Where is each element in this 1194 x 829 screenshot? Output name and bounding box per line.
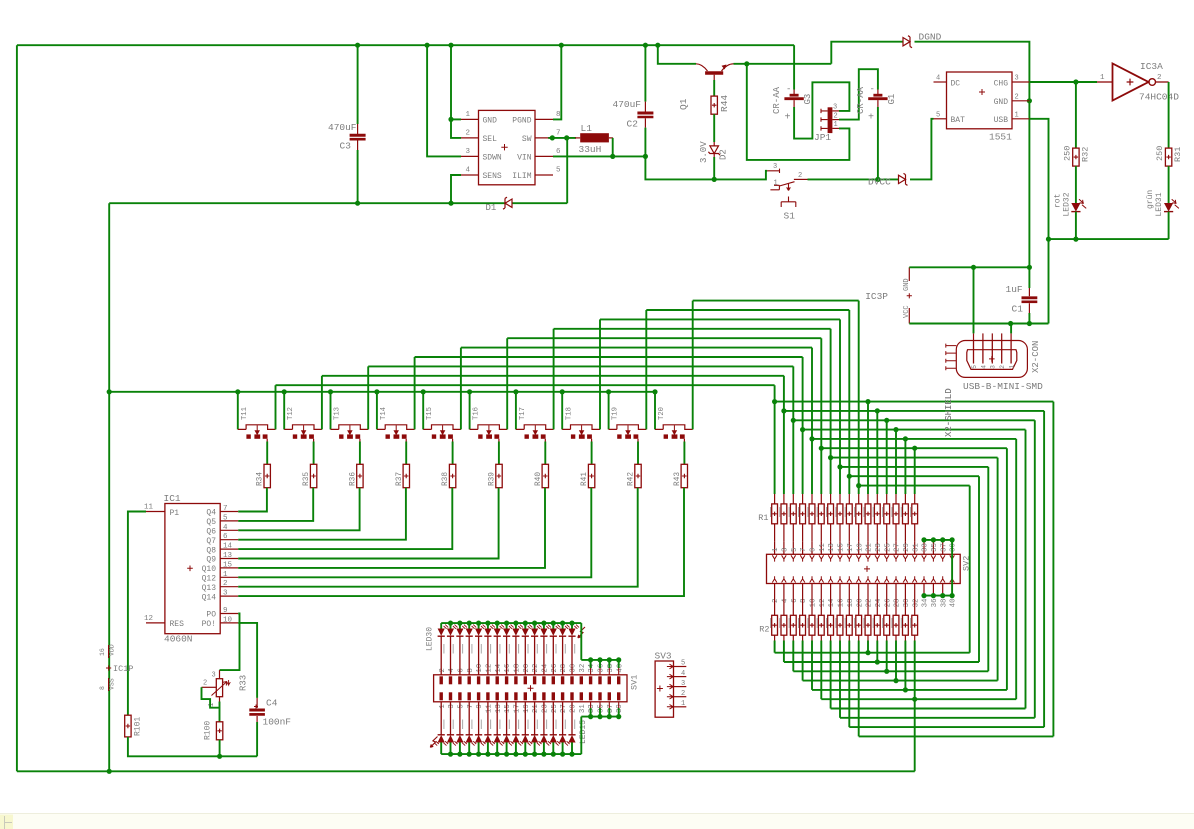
svg-text:5: 5 [971, 365, 978, 369]
resistor array R1 element 15 [904, 494, 906, 504]
svg-text:2: 2 [1015, 93, 1019, 101]
junction SV2 pin 40 rail [950, 593, 955, 598]
wire fabric horizontal h9 [849, 475, 979, 477]
svg-text:R36: R36 [349, 472, 357, 486]
LED array top element 15 (pin 30) [571, 623, 573, 628]
svg-text:24: 24 [875, 598, 883, 607]
svg-text:13: 13 [828, 543, 836, 552]
resistor R42 [635, 464, 641, 487]
junction LED rail col 10 [523, 621, 528, 626]
SV2 top pin 37 pad [940, 555, 945, 561]
R2 element 10 name dash [854, 618, 855, 628]
junction T13 source / bus [328, 389, 333, 394]
svg-text:12: 12 [819, 599, 827, 608]
resistor array R1 element 4 [802, 494, 804, 504]
svg-text:3: 3 [681, 680, 685, 688]
svg-text:34: 34 [588, 663, 596, 672]
svg-text:31: 31 [579, 704, 587, 713]
junction h5 / column v15 [903, 436, 908, 441]
SV1 bottom pin 31 pad [580, 692, 583, 700]
R1 element 6 name dash [817, 507, 818, 517]
junction USB wire / LED rail [1046, 237, 1051, 242]
R1 element 5 name dash [807, 507, 808, 517]
SV1 top pin 12 pad [486, 676, 489, 684]
junction pin7 a [550, 135, 555, 140]
svg-text:2: 2 [223, 580, 228, 588]
junction pin8 / top rail [559, 43, 564, 48]
wire T13 gate down [359, 442, 361, 465]
resistor array R2 element 14 [895, 597, 897, 616]
R2 element 14 name dash [891, 618, 892, 628]
junction R2 col11 / wrap bottom [865, 650, 870, 655]
SV1 bottom pin 3 pad [449, 692, 452, 700]
switch S1 pin1 pad [770, 185, 779, 190]
junction C3 bottom [355, 201, 360, 206]
svg-text:T20: T20 [658, 407, 666, 420]
svg-text:X2-SHIELD: X2-SHIELD [944, 388, 954, 437]
wire SV1 pin 38 stub [608, 660, 610, 668]
LED bottom element 3 name dash [462, 720, 463, 730]
junction h4 / column v4 [800, 427, 805, 432]
wire IC1 Q13 to R42 [238, 488, 638, 587]
SV1 bottom pin 37 pad [608, 692, 611, 700]
svg-text:16: 16 [838, 598, 846, 607]
svg-text:R42: R42 [628, 472, 636, 486]
capacitor C2 [644, 45, 646, 101]
IC1P origin cross [106, 665, 111, 670]
junction h1 / column v1 [772, 399, 777, 404]
LED array top element 1 (pin 2) [440, 623, 442, 628]
LED array bottom element 3 (pin 5) [459, 702, 461, 735]
resistor array R2 element 11 [867, 597, 869, 616]
resistor array R2 element 13 [886, 597, 888, 616]
wire LED rail to SV1 pins 34-40 rail [580, 623, 582, 660]
wire wrap bottom 6 [812, 689, 1007, 691]
svg-text:25: 25 [884, 543, 892, 552]
junction source bus / left rail [107, 389, 112, 394]
wire IC1 Q10 to R40 [238, 488, 545, 568]
power symbol IC1P VDD stub [108, 645, 110, 658]
resistor array R2 element 4 [802, 597, 804, 616]
junction h2 / column v12 [875, 408, 880, 413]
IC1 pin 4 stub Q6 [220, 529, 238, 531]
SV1 bottom pin 9 pad [477, 692, 480, 700]
X2 origin cross [989, 356, 995, 362]
svg-text:36: 36 [931, 598, 939, 607]
wire R101 to local ground [128, 737, 257, 756]
R2 element 7 name dash [826, 618, 827, 628]
resistor array R2 element 9 [848, 597, 850, 616]
junction LED rail col 11 [532, 621, 537, 626]
wire level net T18 to column [600, 318, 840, 320]
SV1 bottom pin 35 pad [598, 692, 601, 700]
svg-text:1: 1 [772, 547, 780, 552]
SV1 origin cross [528, 685, 534, 691]
wire R2 element 5 down [811, 635, 813, 640]
svg-text:SENS: SENS [483, 172, 502, 181]
junction LED rail col 15 [569, 621, 574, 626]
SV1 top pin 18 pad [514, 676, 517, 684]
svg-text:23: 23 [542, 704, 550, 713]
svg-text:IC3P: IC3P [865, 291, 888, 302]
wire 1551 USB pin to LED rail [1029, 119, 1048, 239]
connector SV1 box [434, 675, 627, 702]
SV2 top pin 5 pad [791, 555, 796, 561]
IC1 pin 5 stub Q5 [220, 520, 238, 522]
capacitor C4 100nF [256, 698, 258, 708]
SV2 bottom pin 38 pad [940, 576, 945, 582]
wire SW node vertical [566, 138, 568, 203]
wire IC1 Q14 to R43 [238, 488, 684, 596]
IC1 pin 1 stub Q12 [220, 576, 238, 578]
junction h6 / column v16 [912, 446, 917, 451]
junction bottom LED rail col 10 [523, 752, 528, 757]
svg-text:4060N: 4060N [164, 634, 193, 645]
transistor T18 [561, 392, 563, 430]
LED array top element 12 (pin 24) [543, 623, 545, 628]
junction bottom LED rail col 13 [551, 752, 556, 757]
svg-text:5: 5 [936, 111, 940, 119]
LED bottom element 15 name dash [574, 720, 575, 730]
resistor array R1 element 11 [867, 494, 869, 504]
SV2 top pin 7 pad [800, 555, 805, 561]
R33 wiper lead [202, 686, 217, 688]
SV1 bottom pin 1 pad [440, 692, 443, 700]
wire SV1 pins 33-39 rail [581, 716, 618, 718]
wire wrap bottom 2 [849, 726, 1044, 728]
resistor array R1 element 9 [848, 494, 850, 504]
transistor T14 [376, 392, 378, 430]
SV2 bottom pin 12 pad [819, 576, 824, 582]
wire DGND to 1551 GND and down [915, 42, 1030, 268]
R1 element 11 name dash [863, 507, 864, 517]
SV2 bottom pin 8 pad [800, 576, 805, 582]
LED array top element 13 (pin 26) [552, 623, 554, 628]
junction C2 top [643, 43, 648, 48]
wire wrap right vertical 1 [1052, 402, 1054, 737]
junction LED rail col 8 [504, 621, 509, 626]
resistor R100 [216, 722, 222, 740]
svg-text:33: 33 [922, 543, 930, 552]
svg-text:1: 1 [465, 111, 470, 119]
junction SV2 pin 34 rail [921, 593, 926, 598]
svg-text:74HC04D: 74HC04D [1139, 92, 1179, 103]
junction T12 source / bus [282, 389, 287, 394]
resistor R37 [403, 464, 409, 487]
R1 element 13 name dash [882, 507, 883, 517]
junction 1551 GND pin [1027, 98, 1032, 103]
wire IC1 pin11 to R101 [128, 512, 146, 716]
wire wrap right vertical 7 [997, 458, 999, 681]
svg-text:27: 27 [894, 543, 902, 552]
wire fabric horizontal h4 [803, 429, 1026, 431]
wire VCC source bus [109, 391, 655, 393]
wire level net T17 to column [554, 328, 831, 330]
connector SV2 box [767, 554, 961, 583]
resistor array R2 element 1 [774, 597, 776, 616]
svg-text:VCC: VCC [903, 305, 911, 318]
LED LED31 [1164, 203, 1173, 212]
svg-text:rot: rot [1054, 194, 1063, 208]
svg-text:R33: R33 [239, 675, 249, 691]
wire SV1 pin 33 stub [590, 708, 592, 717]
SV2 top pin 31 pad [912, 555, 917, 561]
svg-text:100nF: 100nF [263, 717, 292, 728]
SV2 top pin 1 pad [772, 555, 777, 561]
wire column v1 down to R1 [774, 385, 776, 494]
LED top element 15 name dash [574, 644, 575, 654]
wire T12 drain to level [321, 376, 323, 430]
svg-text:T16: T16 [473, 407, 481, 420]
wire wrap right vertical 4 [1025, 430, 1027, 709]
wire SV1 pins 34-40 rail [581, 659, 618, 661]
svg-text:C1: C1 [1012, 304, 1024, 315]
svg-text:1: 1 [1100, 74, 1105, 82]
svg-text:12: 12 [144, 615, 153, 623]
svg-text:2: 2 [798, 172, 802, 180]
junction pin3 feed / top rail [425, 43, 430, 48]
svg-text:3.0V: 3.0V [699, 141, 709, 163]
LED array top element 3 (pin 6) [459, 623, 461, 628]
svg-text:T15: T15 [426, 407, 434, 420]
junction LED rail col 13 [551, 621, 556, 626]
sheet lower margin line [0, 814, 1194, 829]
SV2 bottom pin 20 pad [856, 576, 861, 582]
resistor R39 [496, 464, 502, 487]
svg-text:26: 26 [884, 598, 892, 607]
svg-text:20: 20 [523, 664, 531, 673]
SV1 bottom pin 33 pad [589, 692, 592, 700]
LED array bottom element 13 (pin 25) [552, 702, 554, 735]
svg-text:3: 3 [990, 365, 997, 369]
svg-text:37: 37 [607, 704, 615, 713]
SV1 top pin 2 pad [440, 676, 443, 684]
svg-text:R39: R39 [488, 472, 496, 486]
wire T14 gate down [405, 442, 407, 465]
junction LED rail col 6 [485, 621, 490, 626]
resistor array R2 element 7 [830, 597, 832, 616]
LED top element 11 name dash [537, 644, 538, 654]
R2 element 4 name dash [798, 618, 799, 628]
svg-text:R43: R43 [674, 472, 682, 486]
wire R2 element 3 down [792, 635, 794, 640]
LED array top element 6 (pin 12) [487, 623, 489, 628]
svg-text:4: 4 [465, 167, 470, 175]
LED bottom element 8 name dash [509, 720, 510, 730]
SV2 top pin 15 pad [838, 555, 843, 561]
svg-text:2: 2 [1157, 74, 1162, 82]
resistor array R2 element 15 [904, 597, 906, 616]
svg-text:SV1: SV1 [630, 675, 640, 690]
wire T17 gate down [544, 442, 546, 465]
wire wrap bottom 8 [793, 670, 988, 672]
svg-text:SDWN: SDWN [483, 153, 502, 162]
junction LED rail col 14 [560, 621, 565, 626]
wire G1 bottom to DVCC rail [877, 107, 879, 179]
transistor T17 [515, 392, 517, 430]
wire R33 wiper to pin1 [202, 687, 220, 707]
1551 pin5 stub [934, 118, 947, 120]
junction T18 source / bus [560, 389, 565, 394]
SV2 bottom pin 14 pad [828, 576, 833, 582]
SV2 bottom pin 36 pad [931, 576, 936, 582]
svg-text:33: 33 [588, 704, 596, 713]
svg-text:T13: T13 [334, 407, 342, 420]
svg-text:8: 8 [800, 599, 808, 603]
wire inverter output [1168, 82, 1170, 148]
wire level net T13 to column [368, 365, 793, 367]
inverter IC3A 74HC04D [1113, 64, 1149, 101]
svg-text:39: 39 [950, 543, 958, 552]
svg-text:P1: P1 [170, 509, 180, 518]
svg-text:2: 2 [999, 365, 1006, 369]
wire T17 drain to level [553, 329, 555, 430]
power symbol IC3P GND stub [908, 267, 910, 281]
wire T15 drain to level [460, 348, 462, 430]
IC1 origin cross [187, 566, 193, 572]
SV1 top pin 34 pad [589, 676, 592, 684]
SV1 top pin 36 pad [598, 676, 601, 684]
SV2 bottom pin 22 pad [866, 576, 871, 582]
svg-text:28: 28 [894, 599, 902, 608]
LED top element 12 name dash [546, 644, 547, 654]
LED array top element 14 (pin 28) [562, 623, 564, 628]
IC1 pin 3 stub Q14 [220, 595, 238, 597]
svg-text:35: 35 [598, 704, 606, 713]
svg-text:2: 2 [772, 599, 780, 603]
LED top element 10 name dash [528, 644, 529, 654]
LED top element 6 name dash [490, 644, 491, 654]
junction SV1 pin 39 ext rail [616, 714, 621, 719]
wire level net T19 to column [646, 309, 849, 311]
wire IC1 Q6 to R36 [238, 488, 359, 531]
wire second left rail [108, 203, 110, 771]
LED top element 2 name dash [453, 644, 454, 654]
jumper JP1 body [828, 107, 833, 133]
resistor array R2 element 10 [858, 597, 860, 616]
svg-text:5: 5 [457, 704, 465, 708]
svg-text:L1: L1 [581, 123, 593, 134]
wire T12 gate down [313, 442, 315, 465]
resistor R40 [542, 464, 548, 487]
R33 pin1 lead [219, 697, 221, 702]
wire D2 to battery rail [713, 157, 715, 179]
junction SV2 pin 37 rail [940, 537, 945, 542]
IC2 origin cross [501, 144, 507, 150]
wire SV1 pin 34 stub [590, 660, 592, 668]
wire T13 drain to level [367, 366, 369, 429]
SV2 top pin 25 pad [884, 555, 889, 561]
svg-text:grün: grün [1146, 190, 1155, 209]
svg-text:CHG: CHG [994, 79, 1009, 88]
wire LED bottom rail [1049, 238, 1169, 240]
R1 element 14 name dash [891, 507, 892, 517]
inverter output stub [1156, 81, 1169, 83]
SV1 top pin 32 pad [580, 676, 583, 684]
wire JP1 pin2 to G1 [839, 69, 878, 119]
svg-text:GND: GND [994, 98, 1009, 107]
svg-text:R100: R100 [204, 721, 213, 740]
SV3 pin 5 pad [667, 664, 673, 669]
SV2 bottom pin 6 pad [791, 576, 796, 582]
wire R2 element 12 down [876, 635, 878, 640]
SV1 top pin 10 pad [477, 676, 480, 684]
power symbol IC3P VCC stub [908, 308, 910, 324]
svg-text:PO!: PO! [202, 620, 216, 629]
svg-text:VDD: VDD [109, 644, 116, 656]
junction bottom LED rail col 11 [532, 752, 537, 757]
svg-text:JP1: JP1 [814, 132, 831, 143]
svg-text:34: 34 [922, 598, 930, 607]
svg-text:13: 13 [495, 704, 503, 713]
svg-text:9: 9 [810, 548, 818, 552]
svg-text:1: 1 [223, 571, 228, 579]
resistor array R1 element 3 [792, 494, 794, 504]
wire R32 branch down [1075, 82, 1077, 148]
junction R100 / ground wire [217, 754, 222, 759]
svg-text:250: 250 [1155, 146, 1165, 161]
wire level net T12 to column [322, 375, 784, 377]
svg-text:28: 28 [560, 664, 568, 673]
junction h5 / column v5 [809, 436, 814, 441]
R1 element 15 name dash [901, 507, 902, 517]
wire wrap right vertical 2 [1043, 411, 1045, 727]
svg-text:29: 29 [570, 704, 578, 713]
wire IC1 Q8 to R38 [238, 488, 452, 549]
wire wrap bottom 9 [784, 661, 979, 663]
svg-text:1: 1 [774, 180, 778, 188]
wire fabric horizontal h7 [831, 457, 998, 459]
wire SV2 common vertical [951, 540, 953, 596]
wire column v2 down to R1 [783, 376, 785, 494]
svg-text:D1: D1 [486, 203, 497, 213]
junction R2 col16 / wrap bottom b6 [912, 697, 917, 702]
svg-text:VSS: VSS [109, 678, 116, 690]
svg-text:SW: SW [522, 135, 532, 144]
svg-text:GND: GND [483, 116, 498, 125]
inductor L1 lead right [609, 137, 613, 139]
SV2 bottom pin 26 pad [884, 576, 889, 582]
wire left border rail [16, 45, 18, 771]
wire level net T11 to column [276, 384, 775, 386]
resistor R36 [357, 464, 363, 487]
wire wrap bottom 4 [831, 708, 1026, 710]
R2 element 12 name dash [873, 618, 874, 628]
junction SV1 pin 35 ext rail [597, 714, 602, 719]
svg-text:-: - [870, 85, 875, 95]
LED bottom element 14 name dash [565, 720, 566, 730]
wire fabric horizontal h8 [840, 466, 988, 468]
svg-text:38: 38 [607, 664, 615, 673]
svg-text:USB-B-MINI-SMD: USB-B-MINI-SMD [963, 381, 1043, 392]
svg-text:S1: S1 [784, 211, 796, 222]
lightning arrow bottom LED row [430, 737, 437, 748]
LED bottom element 6 name dash [490, 720, 491, 730]
IC1 pin 14 stub Q8 [220, 548, 238, 550]
svg-text:1: 1 [1015, 111, 1019, 119]
wire G3 plus to JP1 pin3 loop [794, 82, 849, 138]
wire fabric horizontal h2 [784, 410, 1044, 412]
junction pin1 branch [448, 117, 453, 122]
wire IC3P GND rail [909, 266, 1029, 268]
SV1 bottom pin 27 pad [561, 692, 564, 700]
junction h9 / column v9 [847, 474, 852, 479]
svg-text:33uH: 33uH [579, 144, 602, 155]
junction second rail / bottom rail [107, 769, 112, 774]
svg-text:3: 3 [773, 163, 777, 171]
svg-text:21: 21 [532, 704, 540, 713]
SV1 top pin 8 pad [468, 676, 471, 684]
